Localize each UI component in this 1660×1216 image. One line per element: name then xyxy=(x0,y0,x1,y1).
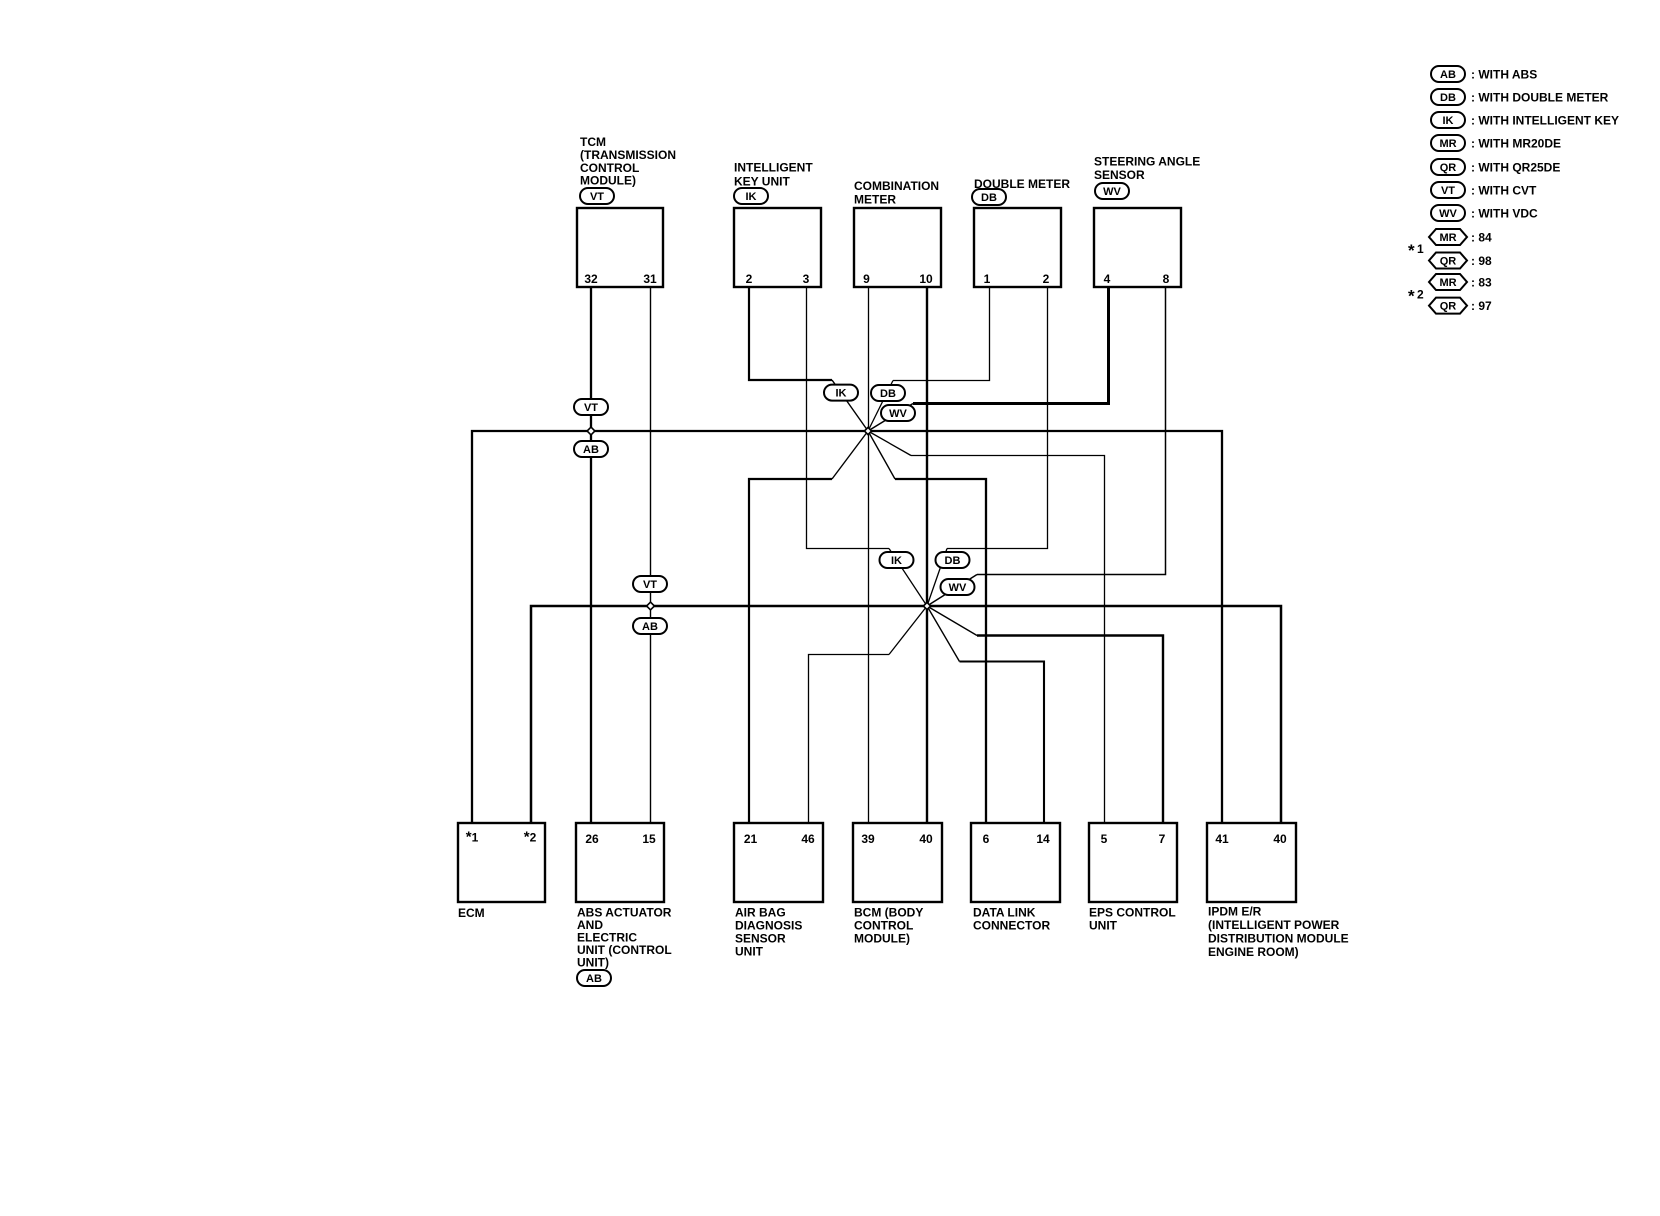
svg-text:METER: METER xyxy=(854,193,896,207)
svg-text:COMBINATION: COMBINATION xyxy=(854,179,939,193)
box TCM (TRANSMISSION CONTROL MODULE) xyxy=(577,208,663,287)
svg-text:QR: QR xyxy=(1440,301,1457,313)
svg-text:9: 9 xyxy=(863,272,870,286)
svg-text:2: 2 xyxy=(1417,288,1424,302)
svg-text:: WITH QR25DE: : WITH QR25DE xyxy=(1471,160,1560,174)
svg-text:DB: DB xyxy=(945,555,961,567)
connector code oval VT on TCM 31 line xyxy=(633,576,667,592)
svg-text:BCM (BODY: BCM (BODY xyxy=(854,906,923,920)
svg-text:IK: IK xyxy=(891,555,902,567)
svg-text:21: 21 xyxy=(744,832,758,846)
connector code hexagon legend QR 98 xyxy=(1429,253,1467,269)
svg-text:KEY UNIT: KEY UNIT xyxy=(734,175,790,189)
box EPS CONTROL UNIT xyxy=(1089,823,1177,902)
box ABS ACTUATOR AND ELECTRIC UNIT (CONTROL UNIT) xyxy=(576,823,664,902)
box COMBINATION METER xyxy=(854,208,941,287)
svg-text:7: 7 xyxy=(1159,832,1166,846)
svg-text:SENSOR: SENSOR xyxy=(735,932,786,946)
svg-text:31: 31 xyxy=(643,272,657,286)
connector code oval WV on J2 diagonal xyxy=(941,579,975,595)
junction splice bus1 x TCM 32 line xyxy=(587,427,595,435)
wire DOUBLE METER 1 down and left to DB drop xyxy=(893,285,990,381)
svg-text:WV: WV xyxy=(889,408,907,420)
svg-text:5: 5 xyxy=(1101,832,1108,846)
svg-text:VT: VT xyxy=(1441,185,1455,197)
wire WV diagonal into junction J1 xyxy=(868,404,913,432)
wire IK diagonal into junction J2 xyxy=(889,549,927,607)
svg-text:2: 2 xyxy=(1043,272,1050,286)
svg-text:4: 4 xyxy=(1104,272,1111,286)
svg-text:32: 32 xyxy=(584,272,598,286)
wire diagonal from J2 to AIR BAG 46 branch xyxy=(889,606,927,655)
connector code oval WV above STEERING ANGLE SENSOR xyxy=(1095,183,1129,199)
wire TCM 31 to ABS 15 through bus2 junction xyxy=(650,285,652,825)
svg-text:DATA LINK: DATA LINK xyxy=(973,906,1036,920)
box AIR BAG DIAGNOSIS SENSOR UNIT xyxy=(734,823,823,902)
wire TCM 32 to ABS 26 through bus1 junction xyxy=(590,285,592,825)
wire branch to AIR BAG DIAGNOSIS SENSOR UNIT 46 xyxy=(809,655,890,826)
svg-text:(INTELLIGENT POWER: (INTELLIGENT POWER xyxy=(1208,918,1340,932)
wire diagonal from J1 to AIR BAG 21 branch xyxy=(832,431,868,479)
wire INTELLIGENT KEY UNIT 3 down and right to IK drop 2 xyxy=(807,285,890,549)
svg-text:ENGINE ROOM): ENGINE ROOM) xyxy=(1208,945,1299,959)
svg-text:39: 39 xyxy=(861,832,875,846)
svg-text:: 84: : 84 xyxy=(1471,230,1492,244)
svg-text:: 83: : 83 xyxy=(1471,275,1492,289)
svg-text:2: 2 xyxy=(746,272,753,286)
svg-text:DB: DB xyxy=(1440,92,1456,104)
svg-text:41: 41 xyxy=(1215,832,1229,846)
svg-text:IK: IK xyxy=(746,191,757,203)
svg-text:AIR BAG: AIR BAG xyxy=(735,906,786,920)
wire diagonal from J2 to EPS 7 branch xyxy=(927,606,977,636)
svg-text:SENSOR: SENSOR xyxy=(1094,168,1145,182)
svg-text:IK: IK xyxy=(836,388,847,400)
svg-text:: WITH DOUBLE METER: : WITH DOUBLE METER xyxy=(1471,90,1609,104)
svg-text:AB: AB xyxy=(1440,69,1456,81)
svg-text:WV: WV xyxy=(1439,208,1457,220)
connector code oval DB on J1 diagonal xyxy=(871,385,905,401)
svg-text:UNIT): UNIT) xyxy=(577,956,609,970)
svg-text:MODULE): MODULE) xyxy=(854,932,910,946)
connector code oval legend AB xyxy=(1431,66,1465,82)
svg-text:: 98: : 98 xyxy=(1471,254,1492,268)
svg-text:: WITH CVT: : WITH CVT xyxy=(1471,183,1537,197)
svg-text:1: 1 xyxy=(1417,242,1424,256)
svg-text:*: * xyxy=(1408,287,1415,306)
wire branch to EPS CONTROL UNIT 7 xyxy=(977,636,1163,826)
svg-text:8: 8 xyxy=(1163,272,1170,286)
wire DB diagonal into junction J2 xyxy=(927,549,947,607)
connector code oval legend QR xyxy=(1431,159,1465,175)
svg-text:40: 40 xyxy=(919,832,933,846)
wire INTELLIGENT KEY UNIT 2 down and right to IK drop xyxy=(749,285,832,380)
svg-text:MR: MR xyxy=(1439,277,1456,289)
connector code oval AB on TCM 31 line xyxy=(633,618,667,634)
svg-text:VT: VT xyxy=(584,402,598,414)
svg-text:*1: *1 xyxy=(466,829,479,846)
connector code oval AB on TCM 32 line xyxy=(574,441,608,457)
svg-text:3: 3 xyxy=(803,272,810,286)
svg-text:TCM: TCM xyxy=(580,135,606,149)
wire CAN bus 1 (ECM *1 - horizontal y431 - IPDM E/R 41) xyxy=(472,431,1222,825)
connector code oval VT on TCM 32 line xyxy=(574,399,608,415)
svg-text:(TRANSMISSION: (TRANSMISSION xyxy=(580,148,676,162)
box ECM xyxy=(458,823,545,902)
svg-text:INTELLIGENT: INTELLIGENT xyxy=(734,161,813,175)
svg-text:VT: VT xyxy=(643,579,657,591)
svg-text:UNIT: UNIT xyxy=(735,945,764,959)
svg-text:IPDM E/R: IPDM E/R xyxy=(1208,905,1262,919)
svg-text:40: 40 xyxy=(1273,832,1287,846)
connector code oval WV on J1 diagonal xyxy=(881,405,915,421)
svg-text:: WITH MR20DE: : WITH MR20DE xyxy=(1471,136,1561,150)
svg-text:AB: AB xyxy=(586,973,602,985)
wire diagonal from J2 to DATA LINK 14 branch xyxy=(927,606,960,662)
svg-text:15: 15 xyxy=(642,832,656,846)
wire WV diagonal into junction J2 xyxy=(927,575,977,607)
wire branch to EPS CONTROL UNIT 5 xyxy=(911,456,1105,826)
junction star junction J2 on bus2 xyxy=(923,602,930,609)
svg-text:10: 10 xyxy=(919,272,933,286)
wire diagonal from J1 to EPS 5 branch xyxy=(868,431,911,456)
connector code oval IK on J1 diagonal xyxy=(824,385,858,401)
svg-text:14: 14 xyxy=(1036,832,1050,846)
svg-text:EPS CONTROL: EPS CONTROL xyxy=(1089,906,1176,920)
connector code oval legend VT xyxy=(1431,182,1465,198)
wire COMBINATION METER 10 to BCM 40 through junction J2 xyxy=(926,285,928,825)
svg-text:26: 26 xyxy=(585,832,599,846)
svg-text:DISTRIBUTION MODULE: DISTRIBUTION MODULE xyxy=(1208,932,1349,946)
svg-text:: 97: : 97 xyxy=(1471,299,1492,313)
svg-text:: WITH INTELLIGENT KEY: : WITH INTELLIGENT KEY xyxy=(1471,113,1619,127)
box DATA LINK CONNECTOR xyxy=(971,823,1060,902)
connector code hexagon legend MR 84 xyxy=(1429,229,1467,245)
svg-text:DB: DB xyxy=(880,388,896,400)
box DOUBLE METER xyxy=(974,208,1061,287)
svg-text:MODULE): MODULE) xyxy=(580,174,636,188)
wire STEERING ANGLE SENSOR 8 down and left to WV drop 2 xyxy=(977,285,1166,575)
connector code oval IK above INTELLIGENT KEY UNIT xyxy=(734,188,768,204)
svg-text:ECM: ECM xyxy=(458,906,485,920)
svg-text:QR: QR xyxy=(1440,256,1457,268)
wire branch to DATA LINK CONNECTOR 14 xyxy=(960,662,1045,826)
connector code oval IK on J2 diagonal xyxy=(880,552,914,568)
svg-text:6: 6 xyxy=(983,832,990,846)
wire branch to AIR BAG DIAGNOSIS SENSOR UNIT 21 xyxy=(749,479,832,825)
svg-text:CONTROL: CONTROL xyxy=(854,919,913,933)
connector code oval legend MR xyxy=(1431,135,1465,151)
svg-text:MR: MR xyxy=(1439,138,1456,150)
svg-text:*: * xyxy=(1408,241,1415,260)
svg-text:STEERING ANGLE: STEERING ANGLE xyxy=(1094,155,1200,169)
box IPDM E/R (INTELLIGENT POWER DISTRIBUTION MODULE ENGINE ROOM) xyxy=(1207,823,1296,902)
svg-text:QR: QR xyxy=(1440,162,1457,174)
svg-text:CONNECTOR: CONNECTOR xyxy=(973,919,1050,933)
svg-text:1: 1 xyxy=(984,272,991,286)
wire branch to DATA LINK CONNECTOR 6 xyxy=(895,479,986,825)
wire COMBINATION METER 9 to BCM 39 through junction J1 xyxy=(868,285,870,825)
connector code oval legend WV xyxy=(1431,205,1465,221)
junction star junction J1 on bus1 xyxy=(864,427,871,434)
svg-text:AB: AB xyxy=(583,444,599,456)
svg-text:VT: VT xyxy=(590,191,604,203)
box STEERING ANGLE SENSOR xyxy=(1094,208,1181,287)
junction splice bus2 x TCM 31 line xyxy=(647,602,655,610)
wire IK diagonal into junction J1 xyxy=(832,380,868,431)
connector code oval legend IK xyxy=(1431,112,1465,128)
svg-text:: WITH ABS: : WITH ABS xyxy=(1471,67,1537,81)
connector code oval DB above DOUBLE METER xyxy=(972,189,1006,205)
svg-text:AB: AB xyxy=(642,621,658,633)
connector code hexagon legend MR 83 xyxy=(1429,274,1467,290)
box INTELLIGENT KEY UNIT xyxy=(734,208,821,287)
wire DB diagonal into junction J1 xyxy=(868,381,893,432)
svg-text:DOUBLE METER: DOUBLE METER xyxy=(974,177,1070,191)
svg-text:: WITH VDC: : WITH VDC xyxy=(1471,206,1538,220)
svg-text:IK: IK xyxy=(1443,115,1454,127)
wire DOUBLE METER 2 down and left to DB drop 2 xyxy=(947,285,1048,549)
connector code oval legend DB xyxy=(1431,89,1465,105)
svg-text:MR: MR xyxy=(1439,232,1456,244)
connector code oval DB on J2 diagonal xyxy=(936,552,970,568)
svg-text:DB: DB xyxy=(981,192,997,204)
connector code hexagon legend QR 97 xyxy=(1429,298,1467,314)
svg-text:UNIT: UNIT xyxy=(1089,919,1118,933)
connector code oval AB below ABS ACTUATOR label xyxy=(577,970,611,986)
svg-text:WV: WV xyxy=(949,582,967,594)
svg-text:46: 46 xyxy=(801,832,815,846)
svg-text:DIAGNOSIS: DIAGNOSIS xyxy=(735,919,802,933)
wire STEERING ANGLE SENSOR 4 down and left to WV drop xyxy=(913,285,1109,404)
wire diagonal from J1 to DATA LINK 6 branch xyxy=(868,431,895,479)
wire CAN bus 2 (ECM *2 - horizontal y606 - IPDM E/R 40) xyxy=(531,606,1281,825)
svg-text:WV: WV xyxy=(1103,186,1121,198)
box BCM (BODY CONTROL MODULE) xyxy=(853,823,942,902)
connector code oval VT above TCM xyxy=(580,188,614,204)
svg-text:*2: *2 xyxy=(524,829,537,846)
